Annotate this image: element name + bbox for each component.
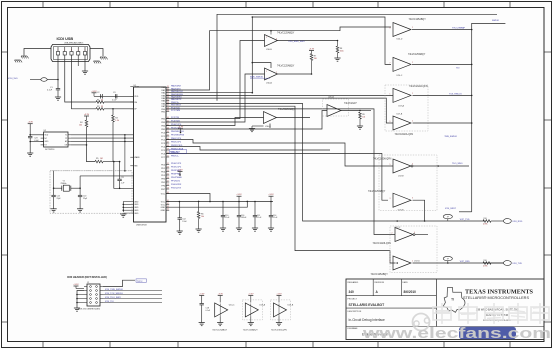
crystal Y2 bbox=[54, 187, 62, 189]
ground J2 bbox=[74, 307, 80, 309]
svg-text:REVISION: REVISION bbox=[375, 282, 385, 284]
power +3.3V osc bbox=[28, 123, 33, 125]
svg-text:7: 7 bbox=[390, 62, 391, 64]
svg-text:2: 2 bbox=[266, 37, 267, 39]
svg-text:NC7WZ16: NC7WZ16 bbox=[45, 149, 55, 151]
svg-text:FILENAME: FILENAME bbox=[348, 327, 359, 330]
svg-text:PE0/SSI1CLK: PE0/SSI1CLK bbox=[171, 131, 185, 133]
svg-text:PF1/IDX1: PF1/IDX1 bbox=[171, 180, 181, 182]
svg-text:3: 3 bbox=[390, 198, 391, 200]
svg-text:33: 33 bbox=[101, 106, 103, 108]
svg-text:74LVC125ABQY: 74LVC125ABQY bbox=[278, 108, 296, 111]
svg-text:PA4/SSIRX: PA4/SSIRX bbox=[171, 96, 182, 99]
svg-text:PD4/CCP3: PD4/CCP3 bbox=[171, 163, 182, 165]
svg-text:1: 1 bbox=[390, 93, 391, 95]
svg-text:74LVC125ABQY: 74LVC125ABQY bbox=[368, 190, 386, 193]
ic U1 left gnd pins bbox=[123, 201, 133, 203]
svg-text:U17-C: U17-C bbox=[395, 227, 401, 229]
svg-text:TMS_SWDIO: TMS_SWDIO bbox=[444, 136, 457, 138]
svg-text:Y1: Y1 bbox=[65, 135, 67, 137]
buffer U17-C bbox=[395, 228, 413, 242]
logo TI texas bbox=[443, 288, 465, 313]
titleblock divider vertical bbox=[435, 279, 437, 327]
buffer spare U10-C bbox=[218, 295, 223, 297]
wire J1 right ear bbox=[90, 49, 103, 57]
svg-text:41: 41 bbox=[167, 121, 169, 123]
capacitor C24 22pF bbox=[53, 188, 55, 195]
capacitor C18 bbox=[199, 295, 204, 297]
junction W4b bbox=[252, 62, 254, 64]
svg-text:74LVC125ABQY: 74LVC125ABQY bbox=[243, 329, 259, 332]
svg-text:+3.3V: +3.3V bbox=[276, 294, 282, 296]
ground R8 bbox=[334, 57, 340, 59]
ground C12 bbox=[177, 230, 183, 232]
wire U17-A out bbox=[413, 94, 472, 96]
svg-text:1: 1 bbox=[266, 71, 267, 73]
ground U1 left bbox=[120, 213, 126, 215]
wire USB DM bbox=[65, 55, 96, 102]
svg-text:47: 47 bbox=[167, 142, 169, 144]
power +3.3V rail b bbox=[269, 195, 274, 197]
watermark cjk text bbox=[433, 303, 549, 324]
svg-text:100k: 100k bbox=[340, 51, 344, 53]
svg-text:TI: TI bbox=[451, 298, 454, 302]
wire J1 left ear bbox=[24, 49, 51, 56]
wire r9 low bbox=[359, 119, 361, 126]
svg-text:J2: J2 bbox=[87, 282, 89, 284]
svg-text:PG0/U2RX: PG0/U2RX bbox=[171, 184, 182, 186]
svg-text:3: 3 bbox=[412, 198, 413, 200]
resistor R5 1M bbox=[95, 160, 103, 163]
svg-text:PB0/CCP0: PB0/CCP0 bbox=[171, 138, 182, 140]
junction rail a bbox=[179, 201, 181, 203]
ground C24 bbox=[51, 208, 57, 210]
ic U1 left pins bbox=[130, 86, 133, 88]
testpoint net VCP_RXD bbox=[396, 262, 398, 264]
svg-text:DESCRIPTION: DESCRIPTION bbox=[348, 311, 362, 313]
qfn box U17-E U20-B bbox=[379, 155, 437, 211]
wire bypass row bbox=[94, 95, 134, 97]
svg-text:VBAT: VBAT bbox=[134, 86, 140, 89]
wire U10-E out bbox=[277, 117, 311, 119]
svg-text:45: 45 bbox=[167, 135, 169, 137]
wire r7 low bbox=[311, 61, 313, 75]
svg-text:ICDI_TXD: ICDI_TXD bbox=[513, 263, 523, 265]
svg-text:51: 51 bbox=[167, 156, 169, 158]
svg-text:3: 3 bbox=[412, 163, 413, 165]
svg-text:74LVC125ABQY: 74LVC125ABQY bbox=[409, 18, 427, 21]
capacitor C1 bbox=[56, 88, 60, 90]
svg-text:PG1/U2TX: PG1/U2TX bbox=[171, 187, 182, 189]
titleblock row line 2 bbox=[346, 307, 436, 309]
svg-text:74LVC125ABQY: 74LVC125ABQY bbox=[277, 65, 295, 68]
svg-text:32: 32 bbox=[167, 91, 169, 93]
wire row U17A bbox=[166, 94, 393, 96]
svg-text:+3.3V: +3.3V bbox=[84, 114, 90, 116]
svg-text:+3.3V: +3.3V bbox=[268, 194, 274, 196]
svg-text:ICDI_TDI: ICDI_TDI bbox=[105, 301, 114, 303]
titleblock outline bbox=[346, 279, 544, 340]
svg-text:4.99k: 4.99k bbox=[483, 224, 487, 226]
svg-text:33: 33 bbox=[101, 99, 103, 101]
svg-text:10k: 10k bbox=[79, 125, 82, 127]
svg-text:TDI: TDI bbox=[456, 68, 460, 70]
power +1.5V tap row bbox=[178, 171, 183, 173]
junction DP pulldown bbox=[112, 108, 114, 110]
svg-text:64: 64 bbox=[167, 209, 169, 211]
ground J1 pin5 bbox=[82, 70, 88, 72]
svg-text:C21: C21 bbox=[121, 177, 124, 179]
svg-text:35: 35 bbox=[167, 99, 169, 101]
svg-text:PC3/TDO: PC3/TDO bbox=[171, 120, 180, 122]
svg-text:3: 3 bbox=[71, 50, 72, 52]
svg-text:U20-C: U20-C bbox=[397, 75, 403, 77]
wire U20-B out bbox=[413, 200, 425, 221]
svg-text:330: 330 bbox=[314, 58, 317, 60]
wire xosc rnet bbox=[87, 145, 96, 162]
power +3.3V bypass bbox=[92, 92, 97, 94]
svg-text:VCC: VCC bbox=[161, 204, 166, 206]
svg-text:PD0/CCP0: PD0/CCP0 bbox=[171, 124, 182, 126]
watermark blue box bbox=[459, 327, 516, 339]
svg-text:U17-A: U17-A bbox=[398, 105, 404, 108]
wire nodeR up bbox=[79, 176, 81, 188]
svg-text:U20-A: U20-A bbox=[328, 96, 334, 99]
wire gndbus mid bbox=[124, 135, 126, 171]
svg-text:10k: 10k bbox=[201, 216, 204, 218]
svg-text:PROJECT: PROJECT bbox=[348, 299, 358, 301]
svg-text:VDD: VDD bbox=[134, 96, 139, 98]
resistor R7 330 bbox=[310, 54, 313, 61]
svg-text:48: 48 bbox=[167, 145, 169, 147]
capacitor C20 22pF bbox=[79, 188, 81, 195]
wire DP to MCU bbox=[104, 108, 134, 110]
wire rowE riser bbox=[166, 194, 210, 202]
wire row U10E in bbox=[166, 118, 264, 126]
svg-text:59: 59 bbox=[167, 188, 169, 190]
svg-text:38: 38 bbox=[167, 107, 169, 109]
svg-text:DATE: DATE bbox=[403, 281, 409, 284]
svg-text:74LVC2G07: 74LVC2G07 bbox=[344, 103, 357, 105]
ic U1 right pins bbox=[166, 86, 169, 88]
svg-text:PA2/SSICLK: PA2/SSICLK bbox=[171, 90, 183, 93]
testpoint net VCP_TXD bbox=[396, 220, 398, 222]
titleblock row line 3 bbox=[346, 326, 544, 328]
svg-text:WAKE: WAKE bbox=[134, 156, 140, 159]
svg-text:VCC: VCC bbox=[161, 201, 166, 203]
svg-text:PB1/CCP2: PB1/CCP2 bbox=[171, 141, 182, 143]
wire U10-A out bbox=[278, 73, 312, 75]
wire row U17D bbox=[166, 109, 395, 235]
buffer U20-D bbox=[393, 23, 411, 37]
svg-text:GND: GND bbox=[134, 213, 139, 215]
wire riser U20D bbox=[166, 27, 391, 90]
svg-text:43: 43 bbox=[167, 128, 169, 130]
svg-text:340: 340 bbox=[349, 290, 355, 294]
wire U20A out2 bbox=[360, 110, 371, 112]
svg-text:2: 2 bbox=[64, 50, 65, 52]
wire row U20A bbox=[166, 111, 327, 130]
svg-text:+1.5V: +1.5V bbox=[177, 170, 183, 172]
svg-text:PC2/TDI: PC2/TDI bbox=[171, 117, 179, 119]
junction r5 a bbox=[113, 161, 115, 163]
svg-text:U17-E: U17-E bbox=[398, 176, 404, 178]
qfn box U17-AB bbox=[385, 85, 428, 131]
wire J2 row ICDI_TDI bbox=[103, 302, 162, 304]
svg-text:C3: C3 bbox=[113, 92, 115, 94]
svg-text:R10: R10 bbox=[484, 260, 487, 262]
svg-text:74LVC2G0A-QFN: 74LVC2G0A-QFN bbox=[409, 85, 428, 88]
wire row VCPTX bbox=[166, 104, 484, 222]
svg-text:+3.3V: +3.3V bbox=[236, 194, 242, 196]
wire USB DP bbox=[72, 55, 97, 109]
svg-text:8: 8 bbox=[390, 28, 391, 30]
power +3.3V header bbox=[74, 285, 79, 287]
svg-text:PE1/SSI1FSS: PE1/SSI1FSS bbox=[171, 134, 185, 136]
junction c21 bbox=[119, 188, 121, 190]
svg-text:PA1/U0TX: PA1/U0TX bbox=[171, 87, 181, 90]
svg-text:TCK_SWCLK: TCK_SWCLK bbox=[449, 93, 462, 95]
svg-text:In-Circuit Debug Interface: In-Circuit Debug Interface bbox=[349, 318, 386, 322]
svg-text:ICDI_TMS_SWDIO: ICDI_TMS_SWDIO bbox=[105, 289, 123, 291]
svg-text:44: 44 bbox=[167, 131, 169, 133]
wire J2 row ICDI_TCK_SWCLK bbox=[103, 294, 162, 296]
capacitor C21 bbox=[119, 162, 121, 180]
buffer U10-E bbox=[264, 112, 277, 124]
wire U2 vdd bbox=[30, 134, 43, 136]
resistor R4 10k bbox=[85, 120, 88, 127]
svg-text:GND: GND bbox=[161, 207, 166, 209]
capacitor C12 bbox=[179, 201, 181, 217]
svg-text:PB3/I2CSDA: PB3/I2CSDA bbox=[171, 147, 184, 150]
ic U2 outline bbox=[44, 132, 68, 147]
svg-text:5: 5 bbox=[390, 164, 391, 166]
wire row U10A in bbox=[166, 74, 265, 122]
junction rowPA1 bbox=[252, 92, 254, 94]
svg-text:LM3S3748: LM3S3748 bbox=[136, 225, 147, 227]
ground C20 bbox=[77, 208, 83, 210]
svg-text:ICDI USB: ICDI USB bbox=[57, 37, 74, 41]
svg-text:U10-E: U10-E bbox=[265, 126, 271, 128]
svg-text:39: 39 bbox=[167, 110, 169, 112]
resistor R9 bbox=[359, 112, 362, 119]
svg-text:31: 31 bbox=[167, 89, 169, 91]
wire xosc0 vert bbox=[114, 162, 134, 189]
wire row U10B in bbox=[166, 41, 265, 119]
wire row U17E in bbox=[166, 140, 393, 167]
ground R6 bbox=[196, 228, 202, 230]
wire net top3 bbox=[252, 17, 391, 64]
svg-text:10k: 10k bbox=[362, 117, 365, 119]
buffer U17-B bbox=[393, 116, 411, 130]
svg-text:U10-A: U10-A bbox=[266, 82, 272, 85]
wire row mid1 bbox=[166, 147, 330, 151]
ic U1 outline bbox=[134, 87, 167, 222]
qfn box U17-CD bbox=[390, 226, 437, 273]
ground U10-E bbox=[249, 128, 255, 130]
svg-text:C2: C2 bbox=[97, 92, 99, 94]
wire right vert bbox=[472, 23, 506, 211]
svg-text:55: 55 bbox=[167, 174, 169, 176]
wire J2 row ICDI_TMS_SWDIO bbox=[103, 290, 162, 292]
connector J1 inner bbox=[54, 47, 88, 60]
wire U10-E en gnd bbox=[269, 124, 271, 129]
svg-text:8/6/2010: 8/6/2010 bbox=[404, 290, 417, 294]
svg-text:PB5/C1-: PB5/C1- bbox=[171, 155, 179, 157]
svg-text:PA3/SSIFSS: PA3/SSIFSS bbox=[171, 93, 183, 96]
wire J2 tvcc bbox=[103, 280, 135, 286]
svg-text:U10-C: U10-C bbox=[229, 305, 235, 307]
svg-text:58: 58 bbox=[167, 184, 169, 186]
connector J1 pins bbox=[56, 52, 59, 56]
buffer U10-B bbox=[265, 35, 278, 47]
resistor R6 bbox=[198, 201, 200, 211]
svg-text:R1: R1 bbox=[97, 99, 99, 101]
resistor R3 1.5k bbox=[112, 115, 115, 122]
svg-text:2: 2 bbox=[412, 120, 413, 122]
capacitor C3 100nF bbox=[115, 94, 117, 98]
svg-text:37: 37 bbox=[167, 105, 169, 107]
svg-text:ICDI_TDO_SWO: ICDI_TDO_SWO bbox=[105, 297, 121, 299]
wire VBUS pin1 bbox=[57, 55, 59, 89]
svg-text:TVCC: TVCC bbox=[137, 281, 143, 283]
buffer U10-A bbox=[265, 68, 278, 80]
buffer U17-A bbox=[393, 88, 411, 102]
svg-text:53: 53 bbox=[167, 167, 169, 169]
svg-text:2: 2 bbox=[412, 27, 413, 29]
svg-text:42: 42 bbox=[167, 124, 169, 126]
svg-text:U10-B: U10-B bbox=[266, 49, 272, 51]
wire stub U10A en bbox=[252, 63, 271, 68]
svg-text:49: 49 bbox=[167, 149, 169, 151]
power +3.3V pullup bbox=[84, 115, 89, 117]
svg-text:74LVC1G06-QFN: 74LVC1G06-QFN bbox=[373, 159, 392, 161]
svg-text:R2: R2 bbox=[97, 106, 99, 108]
svg-text:4: 4 bbox=[78, 50, 79, 52]
wire pulldown bbox=[112, 109, 114, 115]
connector J2 pins bbox=[84, 286, 87, 288]
wire nodeL up bbox=[53, 171, 55, 188]
svg-text:3: 3 bbox=[276, 39, 277, 41]
wire U20-D out bbox=[412, 29, 472, 31]
svg-text:57: 57 bbox=[167, 181, 169, 183]
svg-text:40: 40 bbox=[167, 117, 169, 119]
svg-text:A2: A2 bbox=[65, 140, 67, 143]
svg-text:2: 2 bbox=[412, 93, 413, 95]
wire U17-B out bbox=[413, 122, 472, 124]
wire U20-A out bbox=[341, 110, 360, 112]
svg-text:0.1uF: 0.1uF bbox=[47, 90, 53, 92]
svg-text:PF0/PWM0: PF0/PWM0 bbox=[171, 177, 182, 179]
svg-text:PB6/C0+: PB6/C0+ bbox=[171, 102, 180, 104]
svg-text:ICDI_SRST: ICDI_SRST bbox=[445, 208, 457, 210]
svg-text:2: 2 bbox=[276, 72, 277, 74]
wire r6 low bbox=[198, 219, 200, 230]
svg-text:GND: GND bbox=[161, 210, 166, 212]
junction W4a bbox=[252, 16, 254, 18]
wire U17-C out bbox=[415, 234, 429, 236]
svg-text:GND: GND bbox=[134, 210, 139, 212]
svg-text:PB2/I2CSCL: PB2/I2CSCL bbox=[171, 145, 184, 147]
svg-text:+3.3V: +3.3V bbox=[218, 294, 224, 296]
wire U10-B out bbox=[278, 40, 338, 42]
svg-text:TDO_SWO: TDO_SWO bbox=[452, 163, 463, 165]
svg-text:ICDI HEADER (NOT INSTALLED): ICDI HEADER (NOT INSTALLED) bbox=[67, 275, 107, 279]
svg-text:www.elecfans.com: www.elecfans.com bbox=[362, 325, 551, 342]
power +3.3V tap row bbox=[178, 128, 183, 130]
ground U2 bbox=[27, 152, 33, 154]
qfn box U20-A bbox=[323, 99, 349, 116]
svg-text:U17-B: U17-B bbox=[397, 114, 403, 116]
svg-text:56: 56 bbox=[167, 177, 169, 179]
svg-text:.033uF: .033uF bbox=[241, 217, 247, 219]
titleblock row line 1 bbox=[346, 295, 436, 297]
wire USB GND bbox=[84, 55, 86, 71]
svg-text:74LVC125ABQY: 74LVC125ABQY bbox=[212, 329, 228, 332]
svg-text:25MHz: 25MHz bbox=[61, 183, 67, 185]
svg-text:Y2: Y2 bbox=[65, 138, 67, 140]
junction U20A out bbox=[359, 110, 361, 112]
capacitor C2 10uF bbox=[100, 94, 102, 98]
svg-text:1.5k: 1.5k bbox=[115, 120, 119, 122]
svg-text:VCP_RXD: VCP_RXD bbox=[460, 261, 470, 263]
wire U2 a2 bbox=[71, 140, 134, 142]
svg-text:SWDIO: SWDIO bbox=[492, 20, 499, 22]
svg-text:R5: R5 bbox=[96, 158, 98, 160]
ground chassis left bbox=[21, 55, 27, 57]
wire U2 gndpin bbox=[30, 141, 43, 143]
capacitor bank C10 C16 C11 C14 bbox=[222, 201, 224, 203]
wire DM to MCU bbox=[104, 101, 134, 103]
connector J1 shell bbox=[51, 45, 90, 62]
wire net OSC gray bbox=[50, 170, 132, 172]
wire vcc row2 bbox=[166, 201, 247, 207]
ground chassis right bbox=[100, 56, 106, 58]
svg-text:74LVC125ABQY: 74LVC125ABQY bbox=[371, 273, 389, 276]
svg-text:GND: GND bbox=[134, 201, 139, 203]
resistor R8 bbox=[336, 46, 339, 53]
svg-text:GND: GND bbox=[44, 141, 49, 143]
svg-text:+3.3V: +3.3V bbox=[73, 284, 79, 286]
svg-text:ICDI_RXD: ICDI_RXD bbox=[513, 221, 523, 223]
svg-text:PA0/U0RX: PA0/U0RX bbox=[171, 85, 182, 88]
svg-text:30: 30 bbox=[167, 86, 169, 88]
svg-text:62: 62 bbox=[167, 203, 169, 205]
svg-text:1M: 1M bbox=[100, 158, 103, 160]
capacitor C23 bbox=[28, 135, 32, 137]
resistor R1 33 bbox=[96, 101, 104, 104]
svg-text:Y2: Y2 bbox=[63, 180, 65, 182]
svg-text:GND: GND bbox=[134, 204, 139, 206]
wire J2 row ICDI_TDO_SWO bbox=[103, 298, 162, 300]
wire row U17B bbox=[166, 98, 393, 123]
wire nodeR row bbox=[80, 175, 133, 177]
svg-text:ICDI_TCK_SWCLK: ICDI_TCK_SWCLK bbox=[105, 293, 124, 295]
svg-text:36: 36 bbox=[167, 102, 169, 104]
connector J2 outline bbox=[87, 284, 100, 306]
buffer U20-B bbox=[393, 193, 411, 207]
sheet zone tick marks bbox=[42, 2, 44, 8]
wire vcp2 feed bbox=[413, 262, 504, 264]
junction r5 b bbox=[119, 161, 121, 163]
wire R3 join bbox=[112, 122, 114, 162]
svg-text:46: 46 bbox=[167, 138, 169, 140]
svg-text:U17-D: U17-D bbox=[414, 261, 420, 263]
wire net top2 bbox=[217, 14, 497, 101]
junction vcp2 bbox=[447, 262, 449, 264]
svg-text:74LVC125ABQY: 74LVC125ABQY bbox=[408, 53, 426, 56]
svg-text:PC0/TCK: PC0/TCK bbox=[171, 107, 180, 109]
